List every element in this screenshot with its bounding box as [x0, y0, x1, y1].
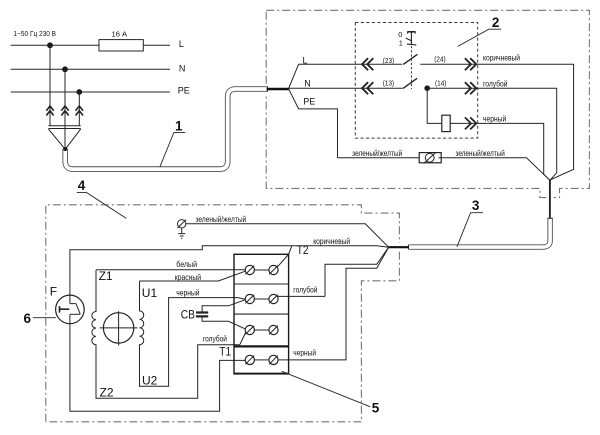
wire черный right [278, 247, 389, 360]
terminal block 5 [234, 254, 289, 374]
motor unit border (box 4) [46, 205, 400, 422]
wire plug pin PE [78, 92, 80, 126]
wire белый [96, 269, 245, 271]
svg-text:16 А: 16 А [112, 30, 129, 39]
terminal row 3 [245, 325, 278, 334]
connector chevrons brown (out) [465, 58, 476, 70]
svg-text:голубой: голубой [293, 286, 317, 295]
svg-text:Z1: Z1 [99, 269, 113, 283]
svg-text:U1: U1 [142, 286, 158, 300]
svg-text:PE: PE [303, 96, 315, 106]
fuse 16 А [99, 30, 143, 51]
svg-text:красный: красный [175, 273, 201, 282]
svg-text:(14): (14) [435, 78, 446, 87]
wire N [11, 68, 170, 70]
svg-text:зеленый/желтый: зеленый/желтый [456, 149, 505, 158]
ground [178, 228, 185, 238]
svg-text:PE: PE [178, 86, 190, 96]
wire junction to lamp [427, 88, 442, 123]
separator 3 [234, 345, 289, 347]
junction dot L [47, 42, 53, 48]
svg-text:черный: черный [293, 349, 316, 358]
svg-text:(13): (13) [383, 79, 394, 88]
wire green/yellow to cable [439, 158, 550, 181]
junction dot plug apex [63, 147, 67, 151]
wire cable1 to switch unit [267, 88, 289, 91]
label 6 [24, 311, 56, 326]
svg-text:L: L [179, 39, 184, 49]
connector chevrons blue (out) [465, 82, 476, 94]
contact blade 13-14 [403, 78, 417, 88]
svg-text:1~50 Гц 230 В: 1~50 Гц 230 В [14, 29, 57, 38]
terminal row 2 [245, 294, 278, 303]
wire contact 14 to blue [427, 88, 557, 180]
connector chevrons black (out) [465, 117, 476, 129]
svg-text:черный: черный [176, 288, 199, 297]
winding U1-U2 [140, 281, 238, 386]
wire lamp to black [450, 123, 550, 180]
separator 2 [234, 313, 289, 315]
wire plug pin L [49, 45, 51, 125]
wire PE [289, 89, 338, 158]
connector chevrons L (in) [362, 58, 373, 70]
svg-text:белый: белый [176, 260, 197, 269]
thermal protector F [56, 295, 85, 324]
wire brown T2 branch [70, 246, 389, 295]
wire красный [140, 271, 246, 281]
svg-text:N: N [179, 63, 186, 73]
earthing clamp [419, 153, 441, 164]
wire earth to bundle [186, 224, 389, 247]
switch inner dashed box [355, 23, 477, 139]
svg-text:1: 1 [399, 39, 403, 48]
label 1 [160, 118, 185, 166]
svg-text:зеленый/желтый: зеленый/желтый [196, 215, 247, 224]
svg-text:5: 5 [372, 401, 380, 416]
switch unit border (box 2) [266, 10, 589, 197]
wire T2 diagonal [277, 246, 292, 268]
separator 1 [234, 283, 289, 285]
wire L into switch [289, 64, 403, 88]
cable 1 outline [65, 89, 267, 169]
wire F to T1 [70, 324, 245, 412]
cable 3 outline [408, 218, 550, 247]
svg-text:0: 0 [398, 30, 402, 39]
svg-text:L: L [303, 55, 308, 65]
connector chevrons N (in) [362, 82, 373, 94]
label 2 [458, 15, 501, 47]
plug contact chevrons PE [76, 106, 83, 116]
svg-text:черный: черный [483, 115, 506, 124]
indicator lamp [442, 115, 450, 131]
wire cable3 into motor unit [389, 246, 409, 248]
winding Z1-Z2 [92, 270, 240, 398]
svg-text:1: 1 [175, 118, 183, 133]
earth terminal green/yellow [178, 220, 187, 228]
svg-text:(23): (23) [383, 56, 394, 65]
wire plug pin N [64, 69, 66, 147]
svg-text:T1: T1 [219, 345, 231, 359]
svg-text:U2: U2 [142, 373, 158, 387]
junction dot PE [76, 89, 82, 95]
junction dot N [62, 66, 68, 72]
svg-text:коричневый: коричневый [483, 53, 520, 62]
svg-text:(24): (24) [434, 54, 445, 63]
terminal row 1 [245, 265, 278, 274]
capacitor CB [181, 300, 246, 329]
terminal row 4 [245, 355, 278, 364]
svg-text:зеленый/желтый: зеленый/желтый [352, 149, 402, 158]
wire голубой right [278, 247, 389, 296]
junction node 14 [424, 85, 430, 91]
svg-text:6: 6 [24, 311, 32, 326]
svg-text:Z2: Z2 [100, 385, 114, 399]
switch actuator [406, 31, 417, 89]
svg-text:CB: CB [181, 308, 195, 322]
svg-text:T2: T2 [297, 243, 309, 257]
contact blade 23-24 [403, 54, 417, 64]
wire L [11, 44, 170, 46]
svg-text:N: N [304, 78, 311, 88]
label 4 [77, 178, 127, 218]
wire Z2 blue diagonal [240, 333, 246, 345]
svg-text:F: F [50, 285, 57, 299]
wire contact 24 to brown [420, 64, 573, 180]
svg-text:4: 4 [78, 178, 86, 193]
label 3 [457, 198, 483, 247]
plug body funnel [48, 126, 80, 149]
plug contact chevrons N [61, 106, 68, 116]
wire PE [11, 91, 170, 93]
wire N into switch [289, 87, 403, 89]
plug contact chevrons L [46, 106, 53, 116]
svg-text:голубой: голубой [483, 80, 508, 89]
wire black to terminal [238, 298, 246, 300]
label 5 [282, 371, 380, 415]
motor rotor [100, 311, 138, 345]
wire bundle to cable 3 [549, 180, 551, 218]
svg-text:коричневый: коричневый [313, 237, 350, 246]
wire PE green/yellow [338, 157, 419, 159]
svg-text:голубой: голубой [203, 335, 227, 344]
svg-text:2: 2 [492, 15, 500, 30]
svg-text:3: 3 [472, 198, 480, 213]
